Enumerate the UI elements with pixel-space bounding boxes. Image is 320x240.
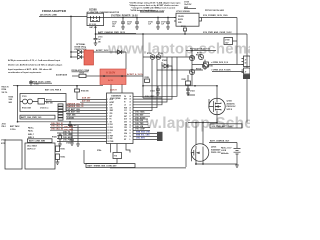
wire pin3 CSP_BATT <box>66 104 107 106</box>
connector J7102 upper <box>242 56 251 67</box>
wire LODRV riser <box>133 65 162 105</box>
svg-text:10uF: 10uF <box>127 24 131 26</box>
svg-text:SMB_C: SMB_C <box>28 134 35 136</box>
svg-text:C7205: C7205 <box>34 84 39 86</box>
svg-text:CEL2: CEL2 <box>110 127 114 129</box>
wire into Q7501 drain <box>216 86 218 98</box>
label SYS boxed bottom right <box>210 124 242 128</box>
capacitor C7108 top right <box>224 38 237 45</box>
wire pin6 VDDSMB <box>66 112 107 114</box>
wire pin14 CHG_VREF <box>57 135 107 137</box>
svg-text:PACK+ 11.1V: PACK+ 11.1V <box>221 146 232 149</box>
svg-text:R7201 100K: R7201 100K <box>22 107 32 109</box>
text block bottom-left notes <box>10 125 20 131</box>
notes text block left <box>8 59 63 74</box>
svg-text:1uF: 1uF <box>148 24 151 26</box>
net label sense (maroon) <box>64 126 73 131</box>
resistor R7104B <box>189 67 201 74</box>
ground sense network <box>76 133 80 147</box>
terminal SMB_SCL_CHG <box>157 135 163 138</box>
capacitor C7107 <box>161 18 170 30</box>
wire REGN riser <box>133 59 157 107</box>
svg-text:RT7101: RT7101 <box>46 99 52 101</box>
svg-text:EXT: EXT <box>110 116 113 118</box>
pin numbers right side U7401 <box>130 95 132 141</box>
wire pin7 EXTPWR <box>66 115 107 117</box>
svg-text:ACIN pin connected to 5.1V, +/: ACIN pin connected to 5.1V, +/- 1mA max … <box>8 59 60 62</box>
svg-text:CMP: CMP <box>124 130 127 132</box>
wire open row 1 <box>209 64 244 66</box>
diode D7102 <box>78 55 85 59</box>
wire sense drop x78 <box>77 125 79 133</box>
junction network x152 <box>151 56 152 57</box>
svg-text:< OPEN_DCK_R 100K: < OPEN_DCK_R 100K <box>211 68 231 71</box>
svg-text:LO: LO <box>124 104 126 106</box>
connector J7201 labels <box>1 140 6 145</box>
value labels inside J7101 <box>22 107 48 109</box>
svg-text:SYS_POWER_19.5V_CHG: SYS_POWER_19.5V_CHG <box>203 15 228 17</box>
wire ground stub left <box>83 150 85 164</box>
svg-text:CHG_CELL_S1: CHG_CELL_S1 <box>51 123 63 125</box>
svg-text:CHG_ACSET: CHG_ACSET <box>135 116 146 119</box>
wire Q7601 drain 2 <box>202 123 204 145</box>
svg-text:VCC: VCC <box>124 110 127 112</box>
svg-text:R7109: R7109 <box>158 53 163 55</box>
enclosure bottom edge <box>110 167 186 169</box>
svg-text:CHG_ISET: CHG_ISET <box>135 115 144 117</box>
connector block J7101 body <box>20 94 66 112</box>
wire branch to option box <box>192 64 204 66</box>
wire to diode D7101 <box>71 51 78 53</box>
svg-text:VDD: VDD <box>110 113 113 115</box>
wire open row 2 <box>212 71 244 73</box>
resistor row glyph y110.6 <box>58 110 63 112</box>
capacitor C7101 on bus B <box>94 34 103 45</box>
svg-text:TS: TS <box>110 133 112 135</box>
svg-text:F7101: F7101 <box>22 96 27 98</box>
svg-text:R7206 10K: R7206 10K <box>81 91 90 93</box>
wire dock chain vertical <box>191 51 193 86</box>
battery pack box 2 <box>25 143 55 169</box>
label FROM ACDC CONN <box>72 69 90 72</box>
svg-text:RGN: RGN <box>124 107 127 109</box>
capacitor C7413 <box>186 86 195 96</box>
svg-text:FROM ADAPTER: FROM ADAPTER <box>42 9 67 13</box>
diode D7101 <box>78 50 85 54</box>
wire U7101 output SYS rail <box>199 17 237 19</box>
svg-text:R7104: R7104 <box>196 67 201 70</box>
junction in box x104 <box>103 75 105 77</box>
resistor R7206 drop <box>75 85 90 99</box>
resistor R7108 on rail <box>147 53 155 60</box>
resistor R7410 <box>145 76 150 82</box>
pin numbers left side U7401 <box>107 99 109 143</box>
wire vertical DCIN rail <box>70 16 72 57</box>
svg-text:VIN: VIN <box>110 121 112 123</box>
chip U7100 OZ588 body <box>87 13 104 25</box>
svg-text:OZ588GN: OZ588GN <box>111 96 121 98</box>
svg-text:02: 02 <box>245 63 247 65</box>
wire crystal to ground run <box>84 159 117 164</box>
wire network top rail <box>143 56 195 58</box>
ground pack return <box>235 164 239 167</box>
resistor row glyph y105.0 <box>58 104 63 106</box>
svg-text:AO4407A: AO4407A <box>227 102 236 105</box>
resistor row glyph y116.2 <box>58 115 63 117</box>
label Q7501 <box>227 101 237 111</box>
wire pin5 VBAT_SNS <box>66 110 107 112</box>
resistor row glyph y113.4 <box>58 112 63 114</box>
svg-text:C7201 0.1u: C7201 0.1u <box>40 107 48 109</box>
wire pin11 CHG_CELL_S2 <box>50 126 107 128</box>
resistor R7211 <box>56 146 66 152</box>
capacitor C7402 on rail <box>68 122 77 127</box>
svg-text:CHG_VDDA: CHG_VDDA <box>135 111 145 114</box>
resistor R7107 option <box>204 62 209 67</box>
svg-text:1uF: 1uF <box>161 24 164 26</box>
chip U7401 label <box>110 96 121 100</box>
wire right-edge drop B <box>246 34 248 68</box>
junction gate node x217 <box>216 85 217 86</box>
svg-text:R7205: R7205 <box>9 96 14 98</box>
svg-text:R7211: R7211 <box>61 148 66 150</box>
wire pack return rail <box>195 163 237 165</box>
notes text block top-center <box>129 1 181 12</box>
wire pin2 ACP_SNS <box>80 101 107 103</box>
wire CHG_ISET stub <box>133 115 150 117</box>
capacitor C7104 <box>127 18 139 30</box>
label OPTIONAL <box>75 43 87 51</box>
svg-text:25V: 25V <box>98 42 101 44</box>
wire pin15 CHG_AGND <box>57 138 107 140</box>
wire U7100 output down <box>95 26 97 34</box>
svg-text:consideration of layout requir: consideration of layout requirements <box>8 71 41 74</box>
wire charge path row <box>188 122 217 124</box>
svg-text:w.laptop-Schema: w.laptop-Schema <box>145 115 250 132</box>
svg-text:CHG_VFB: CHG_VFB <box>135 126 144 128</box>
label BATT_CHG_PWR boxed <box>20 115 55 119</box>
svg-text:3 CELL: 3 CELL <box>10 129 16 131</box>
svg-text:OPTIONAL: OPTIONAL <box>76 43 86 46</box>
junction DCIN y57 <box>70 56 71 57</box>
wire SMB_SCL_CHG <box>133 135 157 137</box>
svg-text:SMB_SDA_CHG: SMB_SDA_CHG <box>136 131 150 134</box>
svg-text:BATT_CHG_PWR_B: BATT_CHG_PWR_B <box>45 88 62 91</box>
svg-text:PR7101 10K 5% 0402: PR7101 10K 5% 0402 <box>205 9 224 12</box>
wire network mid rail <box>157 69 203 71</box>
wire VCC riser <box>133 59 152 110</box>
svg-text:CHG_CELL_S3: CHG_CELL_S3 <box>51 129 63 131</box>
transistor Q7501 PMOS <box>209 98 225 114</box>
svg-text:SYS_PWR_BATT_CHG: SYS_PWR_BATT_CHG <box>212 125 233 128</box>
diode D7103 <box>118 50 122 54</box>
enclosure right edge <box>185 122 187 167</box>
svg-text:BST: BST <box>124 99 127 101</box>
svg-text:10uF: 10uF <box>112 24 116 26</box>
svg-text:CEL3: CEL3 <box>110 130 114 132</box>
junction bus A x158 <box>157 17 158 18</box>
resistor R7103 <box>79 72 86 77</box>
junction adapter node <box>70 16 71 17</box>
svg-text:INT: INT <box>124 139 126 141</box>
svg-text:VREF: VREF <box>110 135 114 137</box>
wire to diode D7102 <box>71 56 78 58</box>
capacitor C7412 <box>150 86 160 96</box>
svg-text:G1 S1 G2: G1 S1 G2 <box>89 24 96 26</box>
junction bus B x143 <box>142 33 143 34</box>
battery pack box 1 <box>5 140 22 169</box>
svg-text:J7101: J7101 <box>2 123 7 125</box>
svg-text:PACK+: PACK+ <box>28 126 34 129</box>
resistor R7103B <box>189 54 201 60</box>
wire right edge down <box>246 79 248 123</box>
capacitor C7103 <box>112 18 125 30</box>
junction rail x70 <box>69 121 70 122</box>
svg-text:PMOS -30V: PMOS -30V <box>211 152 221 154</box>
wire drop from box to IC pin 2 <box>121 85 123 94</box>
wire pin13 CHG_TS <box>57 132 107 134</box>
wire BATT_DRAIN row <box>209 142 237 144</box>
resistor R7106 vertical <box>202 60 212 70</box>
svg-text:C7107: C7107 <box>161 21 166 23</box>
svg-text:VDDSMB: VDDSMB <box>67 117 75 119</box>
wire ACDET corner down <box>125 52 127 69</box>
svg-text:CHG_SNS2: CHG_SNS2 <box>64 130 73 132</box>
transistor Q7601 PMOS pack switch <box>191 144 209 162</box>
wire pin GND pad <box>126 144 130 153</box>
svg-text:R7108: R7108 <box>147 53 152 55</box>
wire PH riser <box>133 57 177 96</box>
battery pack connector label stack <box>28 126 35 139</box>
chip U7101 body <box>176 13 199 26</box>
svg-text:J7: J7 <box>245 71 247 73</box>
svg-text:ACIN: ACIN <box>108 79 114 82</box>
wire CHG_VFB stub <box>133 127 150 129</box>
wire pin13 XTAL1 <box>110 144 112 153</box>
svg-text:R7212: R7212 <box>61 156 66 158</box>
net label AC_SYS rail <box>140 10 165 12</box>
junction charge row x217 <box>216 122 217 123</box>
svg-text:PACK-: PACK- <box>28 130 34 133</box>
svg-text:CSP_BATT_SNS: CSP_BATT_SNS <box>67 108 81 111</box>
svg-text:CSP: CSP <box>110 105 113 107</box>
highlight box ACDET input (red) <box>84 50 94 65</box>
svg-text:ISET: ISET <box>124 116 127 118</box>
svg-text:BATT_THERM_SNS_CONN_DET: BATT_THERM_SNS_CONN_DET <box>88 165 118 168</box>
battery BT1 <box>221 146 241 164</box>
junction top rail x17.5 <box>17 85 18 86</box>
junction network x143 y85.8 <box>142 85 143 86</box>
svg-text:SYSTEM_POWER_19.5V: SYSTEM_POWER_19.5V <box>111 15 138 17</box>
thermistor RT7101 <box>38 99 66 105</box>
wire ACDET out <box>94 51 127 53</box>
junction charge row x203 <box>202 122 203 123</box>
svg-text:CHG_INT#: CHG_INT# <box>136 138 145 140</box>
terminal dark right edge <box>243 75 250 80</box>
svg-text:Q7601: Q7601 <box>211 147 216 149</box>
wire bus B charge power <box>96 33 248 35</box>
wire pin8 PGOOD <box>66 118 107 120</box>
junction bus A x168 <box>167 17 168 18</box>
ground battery pack <box>56 160 60 165</box>
resistor R7110 on bus B <box>181 26 187 34</box>
value label stack top-right corner <box>184 2 196 9</box>
wire adapter input <box>39 15 87 17</box>
connector J7103 lower <box>242 68 251 74</box>
wire bottom sense row <box>143 97 162 99</box>
junction return x196 <box>195 163 196 164</box>
junction rail x17.5 <box>17 121 18 122</box>
svg-text:BATT_CHG_PWR_19.5: BATT_CHG_PWR_19.5 <box>21 116 41 119</box>
svg-text:CHG_SNS1: CHG_SNS1 <box>64 126 73 128</box>
svg-text:SOP-8: SOP-8 <box>227 109 232 111</box>
resistor R7212 <box>56 154 66 160</box>
chip U7401 charger IC body <box>107 93 134 144</box>
svg-text:CHG_TMR: CHG_TMR <box>135 123 144 125</box>
svg-text:SYS_PWR_AND_CHGR_19.5V: SYS_PWR_AND_CHGR_19.5V <box>203 31 232 34</box>
svg-text:10K 1%: 10K 1% <box>2 92 8 94</box>
svg-text:1uF: 1uF <box>98 39 101 41</box>
resistor R7405 divider <box>52 133 62 146</box>
wire ACDC top rail <box>13 85 103 87</box>
svg-text:CEL1: CEL1 <box>110 124 114 126</box>
resistor R7109 on rail <box>156 53 163 60</box>
node FROM ADAPTER <box>40 9 67 16</box>
left pin labels column <box>2 85 14 128</box>
svg-text:CSN_BATT_SNS: CSN_BATT_SNS <box>67 111 81 114</box>
svg-text:ACP_SNS: ACP_SNS <box>82 100 91 103</box>
wire pin10 CHG_CELL_S1 <box>50 124 107 126</box>
capacitor C7406 <box>66 136 74 146</box>
wire CHG_ACSET stub <box>133 118 148 120</box>
svg-text:BATT_CHARGE_OUT: BATT_CHARGE_OUT <box>210 140 230 143</box>
svg-text:PG: PG <box>110 119 112 121</box>
svg-text:ACDET/ACIN: ACDET/ACIN <box>56 74 68 77</box>
transistor pair inside U7100 <box>87 16 104 22</box>
svg-text:3S2P 11.1V: 3S2P 11.1V <box>27 149 36 151</box>
svg-text:C7106: C7106 <box>148 21 153 23</box>
wire CHG_TMR stub <box>133 124 148 126</box>
svg-text:ACIN_DET: ACIN_DET <box>82 97 91 100</box>
resistor row glyph y107.8 <box>58 107 63 109</box>
wire pin XTAL2 <box>116 144 118 153</box>
wire pin12 CHG_CELL_S3 <box>50 129 107 131</box>
junction bus B x95.5 <box>95 33 96 34</box>
wire pin16 CHG_PGND <box>57 140 107 142</box>
svg-text:VIN SW: VIN SW <box>178 16 184 18</box>
svg-text:CHARGER_CELL_S0: CHARGER_CELL_S0 <box>67 102 84 105</box>
svg-text:LI-ION: LI-ION <box>221 150 227 152</box>
svg-text:C7103: C7103 <box>112 21 117 23</box>
wire stub left of ACDET row <box>72 75 79 77</box>
svg-text:CHG_ILIM: CHG_ILIM <box>135 120 144 122</box>
svg-text:GND: GND <box>110 138 113 140</box>
wire HIDRV riser <box>133 57 167 102</box>
net label BATT_CHARGE_PWR <box>98 31 136 34</box>
wire CHG_INT# <box>133 138 157 140</box>
svg-text:CHARGER_CELL_S1: CHARGER_CELL_S1 <box>67 105 84 108</box>
wire pin1 ACIN_DET <box>77 98 107 100</box>
wire CHG_VDDA stub <box>133 112 150 114</box>
svg-text:R7110: R7110 <box>181 26 186 28</box>
resistor R7411 <box>182 75 196 95</box>
wire network lower rail <box>143 85 217 87</box>
wire pin9 VBAT rail <box>18 121 107 123</box>
capacitor C7205 on top rail <box>30 80 39 86</box>
wire through highlight box <box>100 75 143 77</box>
wire R7103 to highlight box <box>86 75 100 77</box>
value labels inside pack box <box>27 145 38 151</box>
capacitor C7106 <box>148 18 160 30</box>
junction bus A x137 <box>136 17 137 18</box>
svg-text:Y74: Y74 <box>114 155 117 158</box>
svg-text:BAT_SEL: BAT_SEL <box>90 26 98 29</box>
terminal SMB_SDA_CHG <box>157 132 163 135</box>
svg-text:4400mAh: 4400mAh <box>221 152 229 155</box>
svg-text:10uF: 10uF <box>225 42 229 44</box>
chip U7101 internals <box>174 16 202 24</box>
svg-text:TMR: TMR <box>124 124 127 126</box>
junction in box x122 <box>121 75 123 77</box>
wire Q7601 drain 1 <box>195 123 197 145</box>
svg-text:www.laptop-schemat: www.laptop-schemat <box>107 41 250 58</box>
wire SMB_SDA_CHG <box>133 132 157 134</box>
svg-text:CHG_COMP: CHG_COMP <box>135 129 146 131</box>
crystal Y7401 <box>97 149 122 159</box>
svg-text:SI4435DDY: SI4435DDY <box>211 148 221 151</box>
wire BST riser <box>133 57 172 99</box>
svg-text:A 19.5V: A 19.5V <box>106 71 116 75</box>
svg-text:CHG_VREF: CHG_VREF <box>63 134 72 136</box>
junction charge row x196 <box>195 122 196 123</box>
svg-text:SCL: SCL <box>124 136 127 138</box>
junction return x203 <box>202 163 203 164</box>
svg-text:BATT PACK: BATT PACK <box>10 125 20 128</box>
svg-text:Divider sets ACIN threshold to: Divider sets ACIN threshold to 2.4 VDC a… <box>8 63 63 66</box>
svg-text:ACIN_R: ACIN_R <box>110 88 117 91</box>
wire drop from box to IC pin 1 <box>110 85 112 94</box>
fuse F7101 <box>20 96 38 104</box>
svg-text:NTC 10K: NTC 10K <box>46 102 53 104</box>
svg-text:VBAT_SNS: VBAT_SNS <box>67 114 77 117</box>
junction lower rail x195 <box>194 85 195 86</box>
wire dock detect row <box>186 50 216 52</box>
diode D7401 <box>162 59 172 70</box>
svg-text:J7: J7 <box>245 59 247 61</box>
svg-text:PGND: PGND <box>110 141 114 143</box>
svg-text:PMOS 30V: PMOS 30V <box>227 106 237 108</box>
wire Q7601 source stubs <box>196 160 203 164</box>
svg-text:VFB: VFB <box>124 127 127 129</box>
svg-text:PR7103 DOCK_DET 1%: PR7103 DOCK_DET 1% <box>190 49 210 51</box>
junction DCIN y52 <box>70 51 71 52</box>
svg-text:< OPEN_DCK_R_N: < OPEN_DCK_R_N <box>211 61 229 64</box>
wire right-edge drop A <box>236 18 238 65</box>
junction bus B x185 <box>184 33 185 34</box>
terminal CHG_INT# <box>157 138 163 141</box>
wire CHG_ILIM stub <box>133 121 148 123</box>
wire Q7501 source down <box>216 115 218 123</box>
label BATT_THERM boxed <box>86 164 135 168</box>
svg-text:ACDET_A_19.5V: ACDET_A_19.5V <box>127 73 143 76</box>
pin name column inside U7401 <box>110 96 128 143</box>
svg-text:R7103: R7103 <box>80 72 85 74</box>
svg-text:PH: PH <box>124 96 126 98</box>
junction dock node <box>191 50 192 51</box>
label CHARGE_ACDC_CONN <box>29 81 52 84</box>
svg-text:CSN: CSN <box>110 107 113 109</box>
wire bus SYSTEM_POWER 19.5V <box>104 17 177 19</box>
